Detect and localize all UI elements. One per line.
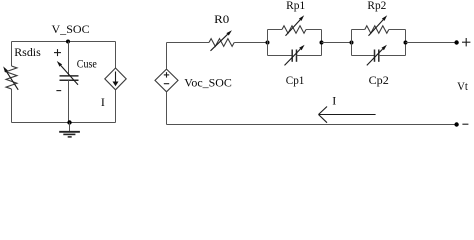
label R0: [214, 12, 229, 26]
svg-text:Vt: Vt: [457, 79, 468, 93]
label Voc_SOC: [184, 76, 232, 90]
wire left-circuit bottom: [12, 122, 116, 124]
svg-text:Cp2: Cp2: [369, 73, 389, 87]
label Vt: [457, 79, 468, 93]
node dot Rp2 right: [404, 41, 408, 45]
svg-text:Rp1: Rp1: [286, 0, 305, 12]
wire Rp2 to + terminal: [406, 42, 457, 44]
node dot Rp2 left: [350, 41, 354, 45]
label Cp2: [369, 73, 389, 87]
node dot Rp1 left: [266, 41, 270, 45]
wire current-source branch lower: [115, 90, 117, 123]
svg-text:Cuse: Cuse: [77, 57, 97, 71]
wire Rp2 top branch left: [352, 29, 365, 31]
wire Rp2 block left edge: [351, 30, 353, 56]
wire left edge lower segment: [11, 89, 13, 123]
label I (load current): [332, 94, 336, 108]
resistor Rp2 (variable): [365, 15, 389, 36]
label I (left circuit): [101, 95, 105, 109]
label V_SOC: [52, 22, 90, 36]
wire Voc_SOC to top rail: [166, 43, 168, 70]
svg-text:Cp1: Cp1: [286, 73, 305, 87]
svg-text:I: I: [101, 95, 105, 109]
svg-text:V_SOC: V_SOC: [52, 22, 90, 36]
wire left edge upper segment: [11, 42, 13, 67]
ground: [59, 123, 80, 137]
capacitor Cp2 (variable): [367, 45, 387, 66]
node V_SOC junction dot (top): [66, 40, 70, 44]
current arrow I (load current, pointing left): [319, 107, 376, 123]
label Cp1: [286, 73, 305, 87]
wire left-circuit top: [12, 41, 116, 43]
wire Rp2 bottom branch left: [352, 55, 375, 57]
label + of Cuse: [54, 49, 61, 56]
capacitor Cp1 (variable): [285, 45, 305, 66]
svg-text:Voc_SOC: Voc_SOC: [184, 76, 232, 90]
ground junction dot: [67, 120, 71, 124]
svg-text:I: I: [332, 94, 336, 108]
label Rp1: [286, 0, 305, 12]
wire Rp1 to Rp2: [322, 42, 352, 44]
wire Rp1 bottom branch right: [297, 55, 322, 57]
label Cuse: [77, 57, 97, 71]
wire current-source branch upper: [115, 42, 117, 69]
resistor Rsdis (variable): [3, 66, 18, 90]
label Rsdis: [14, 45, 41, 59]
svg-text:R0: R0: [214, 12, 229, 26]
wire Voc_SOC to bottom rail: [166, 92, 168, 125]
wire Cuse branch upper: [68, 42, 70, 76]
wire R0 to Rp1 block: [234, 42, 267, 44]
wire Rp1 block left edge: [267, 30, 269, 56]
wire Cuse branch lower: [68, 80, 70, 122]
wire top rail to R0: [167, 42, 210, 44]
terminal dot +: [454, 40, 458, 44]
capacitor Cuse (variable): [57, 61, 79, 85]
wire bottom rail: [167, 124, 457, 126]
label - of Cuse: [56, 90, 61, 92]
svg-text:Rsdis: Rsdis: [14, 45, 41, 59]
wire Rp2 block right edge: [405, 30, 407, 56]
resistor Rp1 (variable): [282, 15, 306, 36]
svg-text:Rp2: Rp2: [367, 0, 386, 12]
wire Rp1 bottom branch left: [268, 55, 293, 57]
wire Rp1 block right edge: [321, 30, 323, 56]
wire Rp1 top branch left: [268, 29, 283, 31]
terminal dot -: [454, 122, 458, 126]
terminal + sign: [462, 38, 470, 46]
wire Rp2 bottom branch right: [379, 55, 406, 57]
resistor R0 (variable): [209, 30, 234, 51]
label Rp2: [367, 0, 386, 12]
wire Rp1 top branch right: [306, 29, 322, 31]
dependent voltage source Voc_SOC (diamond): [155, 69, 178, 92]
current source I1 (dependent, diamond): [105, 68, 126, 90]
terminal - sign: [462, 123, 468, 125]
wire Rp2 top branch right: [389, 29, 406, 31]
node dot Rp1 right: [320, 41, 324, 45]
